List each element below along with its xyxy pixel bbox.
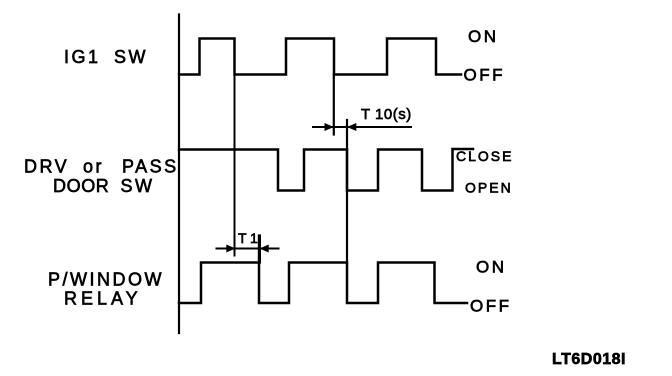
svg-text:DRV: DRV	[24, 157, 69, 177]
svg-text:ON: ON	[468, 27, 499, 46]
svg-text:SW: SW	[121, 176, 155, 196]
svg-text:or: or	[83, 157, 104, 177]
svg-text:LT6D018I: LT6D018I	[552, 351, 626, 368]
svg-text:P/WINDOW: P/WINDOW	[48, 270, 164, 290]
svg-text:OFF: OFF	[464, 66, 506, 85]
svg-text:DOOR: DOOR	[53, 176, 109, 196]
svg-text:IG1: IG1	[64, 47, 101, 67]
svg-text:ON: ON	[476, 258, 507, 277]
svg-text:T 10(s): T 10(s)	[361, 106, 412, 123]
svg-text:1: 1	[250, 230, 258, 246]
svg-text:SW: SW	[114, 47, 148, 67]
svg-text:CLOSE: CLOSE	[456, 148, 513, 164]
svg-text:OFF: OFF	[470, 297, 512, 316]
svg-text:PASS: PASS	[122, 157, 179, 177]
svg-text:RELAY: RELAY	[64, 289, 142, 309]
svg-text:T: T	[238, 230, 247, 246]
svg-text:OPEN: OPEN	[465, 180, 513, 196]
